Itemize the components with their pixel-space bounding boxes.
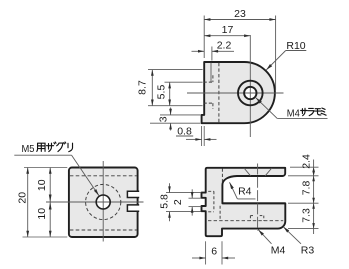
dimension 5.8 extension lines — [166, 192, 201, 194]
view1 hidden slot wall (vertical dashed) — [218, 63, 220, 123]
dimension 6 extension lines — [205, 241, 207, 264]
svg-text:M5: M5 — [22, 143, 35, 155]
view3 hidden tap hole (dashed) — [249, 216, 251, 221]
view2 hidden line bottom (dashed) — [70, 229, 137, 231]
dimension 17 line and arrows — [204, 35, 250, 37]
dimension 20 extension lines — [24, 167, 67, 169]
dimension 23 extension lines — [203, 16, 205, 59]
svg-text:10: 10 — [36, 179, 48, 191]
dimension 6 line and outside arrows — [192, 257, 206, 259]
view1 hole white fill — [244, 87, 256, 99]
dimension 2.2 line and outside arrows — [192, 50, 205, 52]
right dimension stack extension lines — [290, 166, 319, 168]
svg-text:M4: M4 — [271, 244, 286, 256]
svg-text:0.8: 0.8 — [177, 125, 192, 137]
view3 countersink cone line left — [244, 168, 251, 176]
svg-text:3: 3 — [157, 116, 169, 122]
view3 hidden counterbore outline (dashed) — [208, 190, 214, 192]
svg-text:8.7: 8.7 — [136, 80, 148, 95]
dimension 7.8 arrows — [312, 176, 315, 182]
dimension 23 line and arrows — [204, 19, 275, 21]
view3 clamp body outline — [202, 168, 286, 236]
dimension 5.8 line and outside arrows — [169, 183, 171, 192]
label M4 countersink leader — [277, 117, 327, 119]
dimension 2.4 arrows — [312, 167, 315, 171]
dimension 8.7 line and arrows — [151, 70, 153, 106]
view1 body outline (side view with R10 lobe) — [202, 62, 275, 123]
svg-text:7.3: 7.3 — [300, 208, 312, 223]
view3 slot bottom edge (top of lower arm) — [222, 202, 285, 204]
svg-text:2.2: 2.2 — [217, 40, 232, 52]
view3 hidden thread line in lower arm (dashed) — [208, 220, 283, 222]
svg-text:2: 2 — [172, 199, 184, 205]
view2 centerline vertical — [102, 161, 104, 242]
dimension 0.8 line and outside arrows — [186, 138, 202, 140]
svg-text:R4: R4 — [238, 185, 252, 197]
svg-text:5.8: 5.8 — [158, 194, 170, 209]
view2 centerline horizontal — [46, 201, 144, 203]
label R10 leader — [286, 50, 307, 52]
svg-text:20: 20 — [17, 192, 29, 204]
view1 hole centerline horizontal — [187, 92, 284, 94]
view2 square body outline — [69, 168, 138, 238]
view2 counterbore dashed circle — [86, 184, 121, 219]
label R3 leader — [283, 227, 301, 244]
view2 center hole — [96, 195, 110, 209]
svg-text:7.8: 7.8 — [300, 181, 312, 196]
svg-text:10: 10 — [36, 208, 48, 220]
svg-text:M4: M4 — [287, 108, 300, 120]
dimension 10 bottom line and arrows — [49, 202, 51, 237]
dimension 20 line and arrows — [27, 168, 29, 238]
view1 counterbore depth line (thin solid) — [210, 63, 212, 82]
view2 right edge notch 1 — [127, 191, 139, 197]
label R4 leader — [238, 198, 256, 200]
dimension 2 line and outside arrows — [191, 189, 193, 198]
view1 hole centerline vertical — [249, 35, 251, 137]
dimension 3 extension lines — [160, 114, 201, 116]
view1 countersink outer circle — [238, 81, 263, 106]
dimension 10 top line and arrows — [49, 168, 51, 203]
svg-text:5.5: 5.5 — [155, 85, 167, 100]
dimension 5.5 line and arrows — [169, 82, 171, 106]
view3 hole centerline vertical — [257, 164, 259, 231]
view3 countersink cone line right — [265, 168, 272, 176]
svg-text:23: 23 — [234, 8, 246, 20]
dimension 0.8 extension lines — [201, 126, 203, 146]
svg-text:17: 17 — [222, 24, 234, 36]
dimension 2.2 extension line — [211, 47, 213, 61]
view2 hole white fill — [96, 195, 110, 209]
dimension 7.3 arrows — [312, 203, 315, 209]
view1 hidden hole lines (dashed bracket) — [204, 81, 213, 83]
right dimension stack line — [313, 160, 315, 235]
dimension 3 line and outside arrows — [170, 108, 172, 115]
view2 right edge notch 2 — [127, 205, 139, 211]
view2 hidden line top (dashed) — [70, 175, 137, 177]
view1 hole inner circle — [244, 87, 256, 99]
svg-text:6: 6 — [211, 245, 217, 257]
label M5 counterbore leader — [14, 154, 71, 156]
label M4 leader — [258, 230, 271, 244]
dimension 8.7 extension lines — [148, 69, 203, 71]
svg-text:2.4: 2.4 — [300, 154, 312, 169]
dimension 2 extension lines — [189, 197, 202, 199]
svg-text:R3: R3 — [301, 244, 315, 256]
view3 hidden slot end wall (dashed) — [221, 169, 223, 184]
